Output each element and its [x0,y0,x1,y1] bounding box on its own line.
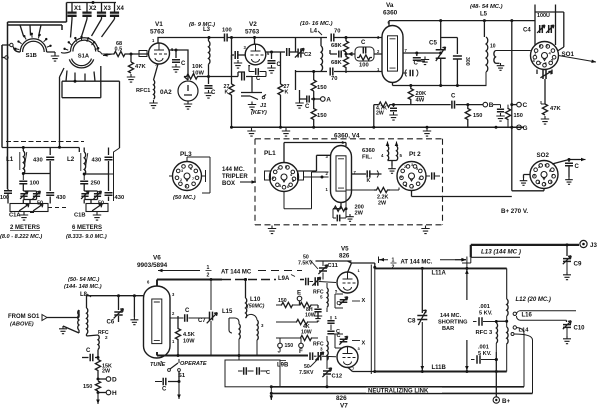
svg-text:L2: L2 [67,156,75,163]
svg-text:J: J [278,348,282,355]
capacitor C11 [318,261,338,280]
wire L1 bottom node [22,172,50,175]
wire Va output pin7 [403,52,442,55]
svg-text:3: 3 [533,174,535,178]
svg-text:0.5: 0.5 [115,47,123,53]
wire S1B right to ground [47,52,55,53]
capacitor C10 [563,320,585,336]
wire S1A bottom bus [62,71,120,83]
wire V7 plate [348,367,377,373]
svg-text:6: 6 [287,185,289,189]
svg-text:C: C [575,164,580,170]
wire L13 top [471,245,579,257]
svg-text:5763: 5763 [150,29,165,36]
svg-text:5763: 5763 [245,29,260,36]
crystal X3 [97,3,112,20]
svg-text:S1B: S1B [26,53,37,59]
svg-text:3: 3 [320,347,323,352]
wire left border inner [1,45,3,148]
svg-text:2: 2 [538,165,540,169]
ground L7 link [497,63,505,70]
svg-text:(50- 54 MC.): (50- 54 MC.) [68,277,100,283]
svg-text:BAR: BAR [442,326,454,332]
box C4 shield [535,12,556,39]
wire 10K to L3 node [200,75,210,78]
resistor 2.2K 2W [346,187,399,208]
capacitor C at A [300,96,314,111]
svg-text:J1: J1 [260,103,266,109]
label 144-148 [64,284,102,290]
label (48-54 MC.) [470,4,503,10]
wire C1A conns [8,196,50,204]
capacitor C4a [537,25,545,33]
wire Bplus riser top [510,21,513,191]
wire V2 plate top [254,38,256,45]
svg-text:C: C [185,308,190,314]
wire L1L2 feed [2,142,79,153]
svg-text:2: 2 [172,311,175,316]
capacitor C2 trimmer [295,48,312,58]
svg-text:2: 2 [180,178,182,182]
svg-text:4: 4 [381,153,384,158]
svg-text:430: 430 [92,158,102,164]
svg-text:BOX: BOX [222,181,235,187]
capacitor 50 trimmer L2a [81,191,89,199]
label 2m freq [0,234,42,240]
svg-text:1: 1 [400,175,402,179]
label (8-9 MC.) [189,22,215,28]
wire PL1 to V4 nest1 [284,143,346,163]
svg-text:6360, V4: 6360, V4 [334,133,360,140]
terminal G [512,125,528,132]
svg-text:C: C [181,61,186,67]
capacitor SO1 trimmer [537,70,552,80]
capacitor 430 L2b [105,174,125,201]
svg-text:L5: L5 [480,12,488,18]
crystal X2 [82,3,97,20]
svg-text:K: K [225,90,229,96]
resistor 68K lower [331,56,349,73]
svg-text:(8- 9 MC.): (8- 9 MC.) [189,22,215,28]
svg-text:(10- 16 MC.): (10- 16 MC.) [300,21,333,27]
wire V6 plate line L9A [157,278,304,286]
label SO1 [562,51,575,58]
svg-text:47K: 47K [550,106,561,112]
svg-text:100U: 100U [537,13,550,19]
svg-text:5: 5 [416,167,418,171]
svg-text:X4: X4 [117,6,125,12]
svg-text:B+: B+ [502,398,510,405]
svg-text:70: 70 [331,76,337,82]
socket PL3 [173,151,202,191]
arrow S1 bottom [177,382,181,400]
svg-text:B+ 270 V.: B+ 270 V. [501,208,528,215]
label .001 5KV a [479,304,493,317]
resistor 150 D [83,381,101,391]
ground C screen V1 [172,64,180,72]
svg-text:100: 100 [359,63,369,69]
coil L8 main [87,308,88,336]
wire L11B [375,370,507,373]
tap L16 [513,312,532,318]
wire 70 to divider [335,36,383,39]
coil L8 link [63,310,79,333]
svg-text:6360: 6360 [362,148,375,154]
svg-text:A: A [326,97,331,104]
svg-text:430: 430 [33,158,43,164]
svg-text:L12 (20 MC.): L12 (20 MC.) [516,297,551,303]
wire SO2 right top [552,158,580,164]
svg-text:FIL.: FIL. [362,155,373,161]
wire L2 bottom node [83,173,109,176]
svg-text:10W: 10W [192,71,204,77]
crystal X1 [67,3,82,20]
wire L12 tap to RFC [496,320,506,322]
label FROM SO1 [8,314,40,328]
capacitor C SO2 [565,160,580,178]
svg-text:Pt 2: Pt 2 [409,151,421,158]
svg-text:C2: C2 [304,52,311,58]
resistor 150 lower [311,99,327,127]
label L4 [310,29,322,36]
coil RFC4 [313,283,328,312]
tube V4 6360 [326,140,357,203]
svg-text:7: 7 [552,174,554,178]
svg-text:F: F [299,348,303,355]
tube V1 5763 [149,38,175,67]
svg-text:430: 430 [115,195,125,201]
svg-text:L13 (144 MC ): L13 (144 MC ) [481,249,521,256]
tripler box dashed [255,139,443,225]
svg-text:144 MC.: 144 MC. [440,313,462,319]
wire L8 to grid [87,294,144,308]
arrow tripler box [240,180,256,184]
spokes S1A lower [63,36,99,50]
svg-text:5: 5 [335,289,338,294]
svg-text:5: 5 [551,58,554,63]
terminal J [278,338,294,355]
wire Pt2 bottom [412,191,512,197]
wire L14 link a [517,328,525,387]
svg-text:C: C [266,370,270,376]
dim arrow vertical [465,263,469,372]
capacitor .001 a [473,317,498,325]
label L9A [276,274,296,282]
svg-text:1: 1 [272,176,274,180]
svg-text:V5: V5 [341,246,349,253]
ground C1B [93,212,101,220]
coil L10b [246,314,265,355]
wire box top stubs [535,5,556,13]
tap L14 [513,326,529,334]
label C4 [523,28,531,34]
svg-text:C8: C8 [408,318,416,325]
capacitor C V6 out [170,308,209,322]
tube V6 9903 [144,280,176,366]
capacitor grid tap [330,50,348,58]
svg-text:150: 150 [285,343,294,349]
svg-text:RFC 3: RFC 3 [476,330,494,336]
svg-text:X: X [362,298,366,304]
wire crystal X3 to S1A [92,19,102,36]
svg-text:1: 1 [185,184,187,188]
capacitor 300 padder [441,38,470,86]
ground V2 grid [232,55,243,68]
label L13 [481,249,521,256]
resistor 20K 4W [408,86,427,105]
terminal H [97,390,118,397]
wire shield slant c [39,25,42,37]
wire from SO1 [42,315,76,321]
ground C1A [20,212,28,220]
coil fil choke b [395,142,403,161]
svg-text:J3: J3 [590,242,597,249]
label L12 [516,297,551,303]
svg-text:3: 3 [181,169,183,173]
svg-text:144 MC.: 144 MC. [222,167,245,173]
svg-text:3: 3 [411,163,413,167]
jack J3 [580,240,598,249]
svg-text:C: C [162,387,167,393]
ground L8 link [59,326,67,334]
wire screenline mid [390,103,451,106]
ground bus left [282,128,290,136]
terminal F [299,338,304,355]
svg-text:826: 826 [339,253,350,260]
capacitor bypass box b [257,367,270,376]
ground C10 [563,336,571,344]
jack J1 KEY [241,90,267,116]
svg-text:X1: X1 [74,6,82,12]
dim arrow left a [158,269,200,273]
svg-text:D: D [112,377,117,384]
crystal bus wire [67,1,117,4]
label Va [386,2,394,9]
socket SO1 [531,42,559,70]
svg-text:3: 3 [261,323,264,328]
svg-text:FROM SO1: FROM SO1 [8,314,40,320]
capacitor V4 coupling [367,170,382,184]
svg-text:6: 6 [419,177,421,181]
svg-text:X3: X3 [104,6,112,12]
wire column to L1L2 [60,68,65,142]
wire V4 bottom [333,203,341,209]
wire neutralizing 1 [270,385,524,388]
wire V6 cathode line L9B [157,352,308,369]
label L11B [432,365,447,371]
wire 826 plate risers [371,265,375,375]
dim dash right a [258,270,302,272]
wire S1A riser right [119,81,121,148]
svg-text:C: C [337,301,341,307]
capacitor C under L3 [205,77,217,97]
svg-text:1: 1 [544,183,546,187]
wire shield pair top [8,3,67,31]
svg-text:1: 1 [534,51,537,56]
svg-text:2W: 2W [376,111,384,117]
svg-text:SHORTING: SHORTING [438,320,468,326]
capacitor .001 b [471,355,498,363]
resistor 150 upper [311,70,327,99]
svg-text:2: 2 [105,335,108,340]
svg-text:150: 150 [278,298,287,304]
label 6360 Va [383,10,398,17]
svg-text:4.5K: 4.5K [183,332,195,338]
svg-text:L9A: L9A [278,276,290,282]
svg-text:(144- 148 MC.): (144- 148 MC.) [64,284,102,290]
svg-text:TUNE: TUNE [150,362,165,368]
socket SO2 [530,152,558,189]
capacitor 50 trimmer L2b [94,191,104,206]
svg-text:10K: 10K [192,64,203,70]
wire PL3 top tab [169,157,206,182]
tube V2 5763 [244,44,271,69]
terminal D [97,371,118,384]
wire L14 link b [511,333,533,394]
wire L11 right end [506,268,508,299]
svg-text:L10: L10 [250,297,261,303]
svg-text:(ABOVE): (ABOVE) [10,322,34,328]
wire C7 down [0,0,1,1]
svg-text:10W: 10W [183,339,195,345]
wire box pins down [535,39,556,46]
grid stopper box [139,51,147,57]
svg-text:X: X [362,341,366,347]
capacitor C cathode V6 [82,348,98,361]
svg-text:C5: C5 [429,40,437,47]
wire screen line [374,105,379,128]
svg-text:6360: 6360 [383,10,398,17]
resistor 200 2W [333,205,364,217]
wire box drop [270,387,274,400]
ground C9 [563,272,571,280]
capacitor C4b [546,25,554,33]
svg-text:C6: C6 [107,320,115,326]
svg-text:(8.333- 9.0 MC.): (8.333- 9.0 MC.) [66,234,107,240]
svg-text:V1: V1 [155,21,163,28]
capacitor 430 L1a [33,148,54,174]
wire cap100 to V2 [228,36,296,39]
wire mid vertical [0,0,1,1]
svg-text:6: 6 [549,169,551,173]
svg-text:C: C [451,94,456,100]
svg-text:C12: C12 [332,374,343,380]
coil fil choke a [381,142,389,161]
label V6 [153,255,161,262]
svg-text:47K: 47K [135,64,146,70]
svg-text:150: 150 [317,85,327,91]
svg-text:L11A: L11A [432,271,447,277]
label 50MC PL3 [173,195,196,201]
capacitor E bypass [314,305,322,321]
capacitor 50 7.5KV bottom [299,359,318,376]
svg-text:.001: .001 [478,345,489,351]
wire S1B wiper [2,43,20,58]
terminal B [466,102,494,109]
wire PL1 to V4 nest3 [304,176,329,179]
capacitor output V2 [281,48,296,56]
resistor 47K SO1 [541,79,561,115]
tube V7 826 [337,346,361,371]
ground between switches [51,53,59,61]
wire L13 left drop [455,257,471,263]
coil L12a [507,299,508,321]
ground J1 [248,102,256,110]
tube Va 6360 [377,20,408,83]
capacitor neut upper [337,297,366,307]
capacitor 100 L1 [19,181,39,192]
box C1A [9,204,48,219]
capacitor screen bypass [389,105,397,121]
wire neutralizing 2 [270,392,533,395]
terminal E [297,290,302,306]
svg-text:150: 150 [473,113,482,119]
svg-text:1: 1 [172,339,175,344]
rotary switch S1A upper [71,38,99,60]
label 5763 V2 [245,29,260,36]
svg-text:10W: 10W [301,330,312,336]
wire SO2 left [524,175,531,179]
svg-text:5: 5 [400,153,403,158]
label TUNE OPERATE [150,361,207,368]
svg-text:7: 7 [192,177,194,181]
resistor 150 C [505,105,522,128]
wire to V1 grid [126,53,148,56]
wire V2 grid branch [232,38,235,56]
label 2 METERS [10,225,40,231]
label V2 [249,21,257,28]
wire L11A [375,267,507,270]
label V5 826 [339,246,350,260]
svg-text:C10: C10 [574,326,586,332]
svg-text:826: 826 [336,395,347,402]
label shorting bar [438,313,468,332]
ground under L3 [204,90,212,98]
svg-text:150: 150 [514,113,523,119]
label B+270V [501,208,528,215]
resistor 10K 10W [184,64,204,80]
capacitor cathode V2 [249,65,266,82]
ground 47K SO1 [541,116,549,124]
svg-text:2: 2 [277,167,279,171]
svg-text:2W: 2W [378,201,387,207]
svg-text:3: 3 [172,292,175,297]
svg-text:G: G [523,125,528,132]
wire crystal X2 to S1A [82,19,88,37]
terminal A [312,97,331,104]
ground bus J1 [247,128,255,136]
socket Pt2 [397,151,426,191]
svg-text:1: 1 [335,315,338,320]
wire V1 plate top [158,36,224,43]
label 5763 V1 [150,29,165,36]
svg-text:1: 1 [152,38,155,43]
terminal C [517,102,528,109]
capacitor mid coupling [327,315,340,335]
svg-text:C4: C4 [523,28,531,34]
switch S1 tune [168,356,186,380]
svg-text:2: 2 [404,165,406,169]
coil L5 [484,21,487,86]
capacitor 100 left [0,189,12,201]
label lambda2 a [206,265,212,279]
svg-text:C9: C9 [574,261,582,268]
svg-text:NEUTRALIZING LINK: NEUTRALIZING LINK [368,388,429,394]
svg-text:PL1: PL1 [264,150,276,157]
wire trimmers L2 [84,191,97,204]
wire V1 cathode [154,64,159,80]
wire S1 down [168,372,181,384]
